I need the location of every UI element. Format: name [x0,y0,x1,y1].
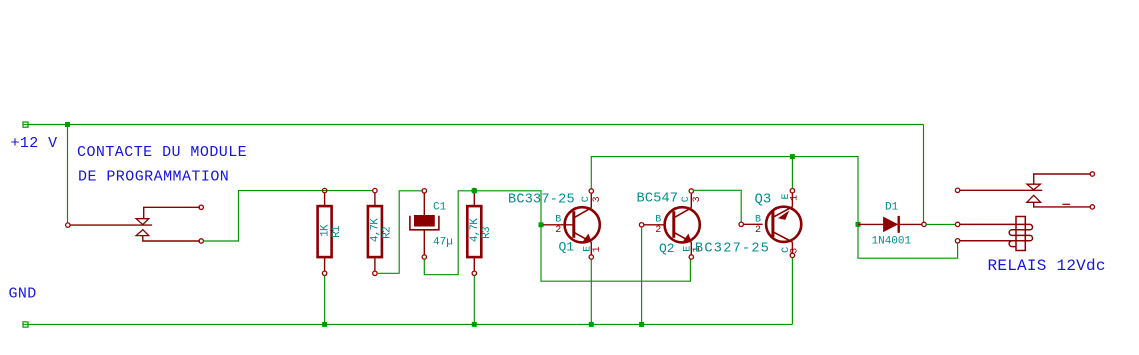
svg-text:4,7K: 4,7K [369,218,381,242]
node GND terminal [23,322,28,327]
svg-text:B: B [555,215,561,226]
wire from +12V rail down to switch pin 1 [67,125,69,223]
relay K1 coil [955,217,1032,251]
svg-text:1: 1 [789,195,800,201]
svg-text:C: C [581,196,592,202]
relay contact NC throw [1027,195,1095,209]
junction R3 top [472,188,477,193]
wire Q3 collector down to GND bus end [791,258,793,325]
wire D1 cathode to relay coil pin 1 [926,223,955,225]
svg-text:D1: D1 [885,202,899,214]
svg-text:1K: 1K [320,224,332,237]
svg-text:Q2: Q2 [659,241,675,256]
svg-text:GND: GND [9,286,37,303]
wire red Q1 base stub [543,224,574,226]
svg-text:BC327-25: BC327-25 [695,242,770,257]
junction R3/GND bus [472,322,477,327]
resistor R1 [318,188,332,275]
relay contact common [955,188,1042,192]
pin circle Q2 base [639,223,643,227]
svg-text:CONTACTE DU MODULE: CONTACTE DU MODULE [77,144,247,161]
svg-text:Q3: Q3 [755,192,772,208]
pin labels Q2 [655,196,703,252]
switch SW1 contact symbol [66,205,204,243]
wire Q2 base down to GND bus [641,227,643,324]
wire switch output to R1/R2 tops [203,191,372,241]
wire red Q2 base stub [644,224,665,226]
junction Q1 base [539,222,544,227]
junction Q1 emitter/GND bus [589,322,594,327]
wire Q1 collector up and right to D1 anode column [591,157,957,259]
svg-text:47µ: 47µ [433,237,453,249]
svg-text:2: 2 [655,225,661,236]
relay contact NO throw [1027,172,1095,190]
wire GND bus [28,323,792,325]
junction Q2 base/GND bus [639,322,644,327]
svg-text:2: 2 [555,225,561,236]
capacitor C1 [410,189,439,260]
junction Q3 emitter / collector rail [790,154,795,159]
resistor R3 [467,188,481,275]
junction R1/GND bus [322,322,327,327]
svg-text:C1: C1 [433,202,447,214]
wire red Q3 base stub [743,223,762,225]
node +12V terminal [23,122,28,127]
wire +12V rail down to D1 cathode [923,125,925,223]
svg-text:C: C [681,196,692,202]
svg-text:BC337-25: BC337-25 [508,193,575,208]
pin labels Q1 [555,196,603,252]
junction on +12V rail [65,122,70,127]
svg-text:1: 1 [592,246,603,252]
svg-text:Q1: Q1 [559,240,575,255]
wire R1 bottom to GND bus [324,276,326,325]
pin circle Q3 base [739,222,743,226]
junction D1 anode [856,222,861,227]
pin labels Q3 [755,193,800,253]
svg-text:3: 3 [789,248,800,254]
transistor Q2 [665,189,700,259]
svg-text:DE PROGRAMMATION: DE PROGRAMMATION [78,169,229,186]
svg-text:3: 3 [592,196,603,202]
svg-text:R1: R1 [331,225,343,238]
svg-text:B: B [655,215,661,226]
svg-text:BC547: BC547 [637,192,679,207]
wire Q1 emitter to GND bus [590,259,592,324]
wire Q1 base junction down and right to Q2 emitter [541,225,690,281]
svg-text:R2: R2 [381,227,393,239]
wire R2 bottom to C1 top [377,191,422,273]
resistor R2 [368,188,382,275]
svg-text:+12 V: +12 V [11,135,58,152]
wire C1 bottom to net going to R3/Q1 base [424,191,541,275]
diode D1 [858,216,926,233]
svg-text:3: 3 [692,196,703,202]
wire Q2 collector to Q3 base [693,190,742,222]
svg-text:4,7K: 4,7K [469,218,481,242]
svg-text:RELAIS 12Vdc: RELAIS 12Vdc [988,257,1106,275]
transistor Q3 [766,189,801,258]
wire +12V top rail [28,124,924,126]
wire Q3 emitter up to rail [791,157,793,189]
svg-text:1N4001: 1N4001 [872,236,912,248]
wire R3 bottom to GND bus [473,276,475,325]
transistor Q1 [565,189,600,259]
svg-text:R3: R3 [481,227,493,239]
svg-text:2: 2 [755,225,761,236]
